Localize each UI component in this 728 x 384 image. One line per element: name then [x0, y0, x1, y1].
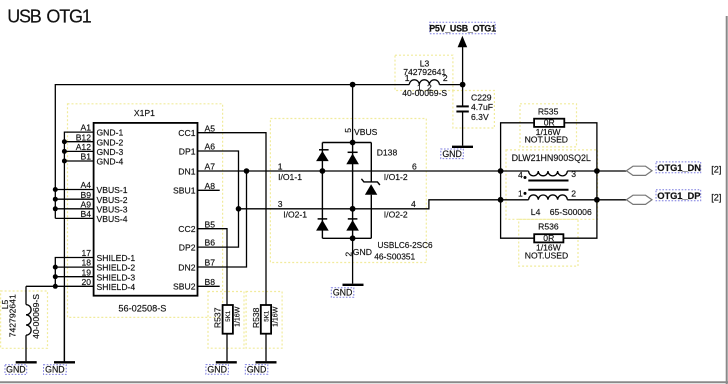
- X1P1 refdes: [134, 108, 155, 118]
- svg-text:SHILED-1: SHILED-1: [97, 253, 136, 263]
- GND label shield: [44, 365, 67, 375]
- D138 part numbers: [374, 241, 433, 261]
- P5V_USB_OTG1 label: [429, 22, 496, 33]
- svg-text:A9: A9: [80, 199, 91, 209]
- OTG1_DP sheet ref [2]: [711, 193, 721, 203]
- wire VBUS drop to D138 pin5: [352, 85, 354, 143]
- yellow dashed property box R538: [246, 292, 282, 349]
- svg-text:B9: B9: [80, 190, 91, 200]
- OTG1_DN net label: [656, 162, 701, 173]
- svg-text:L4: L4: [531, 207, 541, 217]
- yellow dashed property box X1P1: [68, 104, 223, 318]
- svg-text:SBU1: SBU1: [173, 186, 196, 196]
- svg-text:GND-1: GND-1: [97, 128, 124, 138]
- resistor R536 body: [534, 234, 563, 242]
- X1P1 left pin names: [97, 128, 136, 292]
- D138 pin 2 GND label: [343, 247, 372, 257]
- svg-text:20: 20: [81, 277, 91, 287]
- yellow dashed property box R537: [208, 292, 244, 349]
- power net P5V_USB_OTG1 arrow: [458, 36, 468, 85]
- svg-text:DP1: DP1: [179, 146, 196, 156]
- svg-text:2: 2: [443, 73, 448, 83]
- svg-text:A5: A5: [205, 123, 216, 133]
- transformer L4 winding top: [529, 171, 568, 176]
- svg-text:742792641: 742792641: [7, 294, 17, 337]
- D138 junction dots: [320, 140, 356, 242]
- svg-text:1: 1: [278, 161, 283, 171]
- svg-text:DN1: DN1: [178, 166, 195, 176]
- ground symbol D138: [343, 284, 364, 286]
- svg-text:B12: B12: [76, 132, 92, 142]
- transformer DLW21HN900SQ2L name: [512, 153, 591, 163]
- svg-text:A8: A8: [205, 181, 216, 191]
- svg-text:742792641: 742792641: [403, 67, 446, 77]
- svg-text:5K1: 5K1: [263, 310, 270, 322]
- svg-text:A6: A6: [205, 142, 216, 152]
- C229 labels: [471, 93, 493, 123]
- R538 labels: [251, 306, 280, 328]
- svg-text:[2]: [2]: [711, 165, 721, 175]
- svg-text:DN2: DN2: [178, 262, 195, 272]
- svg-text:SHIELD-4: SHIELD-4: [97, 282, 136, 292]
- svg-text:R536: R536: [538, 222, 559, 232]
- svg-text:B4: B4: [80, 209, 91, 219]
- svg-text:I/O1-1: I/O1-1: [278, 172, 302, 182]
- svg-text:1: 1: [405, 73, 410, 83]
- capacitor C229: [456, 85, 468, 146]
- yellow dashed property box L5: [1, 291, 48, 348]
- svg-text:B1: B1: [80, 152, 91, 162]
- svg-text:GND: GND: [207, 364, 227, 374]
- junction GND bus dots: [62, 139, 67, 163]
- svg-text:GND: GND: [45, 365, 65, 375]
- ground symbol R537: [216, 361, 237, 363]
- svg-text:1/16W: 1/16W: [234, 306, 241, 327]
- svg-text:I/O1-2: I/O1-2: [384, 172, 408, 182]
- svg-text:USBLC6-2SC6: USBLC6-2SC6: [378, 241, 434, 250]
- GND label D138: [331, 288, 354, 298]
- svg-text:6: 6: [412, 161, 417, 171]
- junction DN tie: [244, 168, 250, 174]
- wire VBUS pins bus: [55, 190, 93, 219]
- svg-text:0R: 0R: [543, 233, 554, 243]
- svg-text:B7: B7: [205, 258, 216, 268]
- wire net DP I/O2 row: [239, 200, 627, 209]
- svg-text:[2]: [2]: [711, 193, 721, 203]
- svg-text:A1: A1: [80, 123, 91, 133]
- svg-text:56-02508-S: 56-02508-S: [118, 303, 166, 313]
- wire VBUS top rail: [55, 85, 462, 219]
- L5 value labels: [0, 294, 41, 339]
- wire D138 to ground: [352, 238, 354, 283]
- svg-text:17: 17: [81, 248, 91, 258]
- transformer L4 winding bottom: [529, 195, 568, 200]
- L4 part labels: [531, 207, 592, 217]
- svg-text:SBU2: SBU2: [173, 282, 196, 292]
- svg-text:2: 2: [343, 252, 353, 257]
- svg-text:B6: B6: [205, 238, 216, 248]
- wire DP1 A6 to DP2 B6: [198, 151, 239, 247]
- L4 junction dots: [498, 168, 600, 203]
- svg-text:GND: GND: [247, 364, 267, 374]
- D138 pin 1 label: [278, 161, 302, 182]
- wire GND pins bus: [64, 132, 93, 362]
- diode array D138 outline: [322, 143, 371, 239]
- svg-text:2: 2: [571, 189, 576, 199]
- resistor R537 body: [223, 305, 233, 334]
- svg-text:NOT.USED: NOT.USED: [525, 250, 568, 260]
- pin stub SBU1 A8: [198, 189, 220, 191]
- transformer polarity dots: [524, 176, 527, 195]
- svg-text:B5: B5: [205, 219, 216, 229]
- svg-text:P5V_USB_OTG1: P5V_USB_OTG1: [429, 23, 496, 33]
- GND label L5: [5, 365, 27, 375]
- GND label R537: [206, 364, 229, 374]
- resistor R535 body: [534, 119, 564, 127]
- junction DP tie to I/O2: [236, 206, 242, 212]
- D138 pin 6 label: [384, 161, 417, 182]
- junction SHIELD bus dots: [53, 265, 58, 289]
- inductor L5: [26, 286, 31, 361]
- R535 labels: [525, 107, 568, 145]
- svg-text:OTG1_DP: OTG1_DP: [657, 190, 700, 201]
- GND label C229: [441, 149, 464, 159]
- svg-text:VBUS-3: VBUS-3: [97, 204, 128, 214]
- ground symbol shield: [54, 361, 75, 363]
- D138 diode left bottom: [316, 219, 329, 231]
- svg-text:A4: A4: [80, 180, 91, 190]
- svg-text:DP2: DP2: [179, 242, 196, 252]
- wire SHIELD pins bus: [26, 258, 94, 287]
- R536 labels: [525, 222, 568, 261]
- svg-text:GND: GND: [6, 365, 26, 375]
- svg-text:GND: GND: [353, 247, 372, 257]
- svg-text:3: 3: [278, 199, 283, 209]
- junction L3 out: [460, 82, 466, 88]
- wire CC1 A5 to R538: [198, 133, 267, 305]
- R535 wires: [501, 123, 597, 238]
- R537 labels: [212, 306, 241, 328]
- svg-text:GND: GND: [333, 288, 353, 298]
- yellow dashed property box L3: [395, 55, 453, 90]
- svg-text:GND-3: GND-3: [97, 147, 124, 157]
- off-page connector OTG1_DN: [626, 166, 652, 175]
- svg-text:18: 18: [81, 258, 91, 268]
- yellow dashed property box R535: [520, 104, 577, 147]
- D138 pin 4 label: [384, 199, 416, 220]
- svg-text:GND-2: GND-2: [97, 137, 124, 147]
- svg-text:6.3V: 6.3V: [471, 112, 489, 122]
- yellow dashed property box C229: [453, 91, 495, 129]
- wire DN1 A7 to DN2 B7: [198, 171, 247, 267]
- junction VBUS top: [350, 82, 356, 88]
- X1P1 right pin numbers: [205, 123, 216, 287]
- ground symbol C229: [452, 146, 473, 148]
- svg-text:CC2: CC2: [178, 224, 195, 234]
- svg-text:DLW21HN900SQ2L: DLW21HN900SQ2L: [512, 153, 591, 163]
- OTG1_DN sheet ref [2]: [711, 165, 721, 175]
- svg-text:R538: R538: [251, 307, 261, 328]
- D138 zener: [361, 179, 380, 195]
- title USB OTG1: [7, 7, 92, 27]
- svg-text:VBUS-4: VBUS-4: [97, 214, 128, 224]
- svg-text:CC1: CC1: [178, 128, 195, 138]
- wire net DN1 I/O1 row: [198, 170, 627, 172]
- transformer core bars: [528, 181, 568, 190]
- D138 pin 3 label: [278, 199, 308, 220]
- svg-text:1: 1: [518, 189, 523, 199]
- svg-text:0R: 0R: [544, 118, 555, 128]
- D138 diode center top: [346, 152, 359, 164]
- svg-text:A12: A12: [76, 142, 92, 152]
- svg-text:GND: GND: [442, 149, 462, 159]
- svg-text:B8: B8: [205, 277, 216, 287]
- svg-text:3: 3: [571, 169, 576, 179]
- junction VBUS bus dots: [53, 187, 58, 211]
- D138 refdes: [377, 147, 398, 157]
- X1P1 right pin names: [173, 128, 196, 292]
- yellow dashed property box L4 DLW21: [506, 150, 598, 219]
- ground symbol L5: [16, 361, 37, 363]
- wire CC2 B5 to R537: [198, 229, 228, 305]
- D138 pin 5 VBUS label: [343, 127, 378, 137]
- svg-text:19: 19: [81, 267, 91, 277]
- X1P1 part number 56-02508-S: [118, 303, 166, 313]
- GND label R538: [245, 364, 267, 374]
- svg-text:A7: A7: [205, 162, 216, 172]
- wire shield bus to ground: [63, 286, 65, 361]
- L3 labels: [402, 59, 448, 99]
- ground symbol R538: [256, 361, 277, 363]
- svg-text:VBUS-2: VBUS-2: [97, 195, 128, 205]
- connector X1P1 body: [94, 123, 198, 296]
- svg-text:VBUS: VBUS: [354, 127, 378, 137]
- wire R538 to ground: [265, 334, 267, 362]
- off-page connector OTG1_DP: [626, 195, 652, 204]
- X1P1 left pin numbers: [76, 123, 92, 287]
- svg-text:46-S00351: 46-S00351: [374, 251, 415, 261]
- wire R537 to ground: [226, 334, 228, 362]
- svg-text:4: 4: [518, 170, 523, 180]
- svg-text:X1P1: X1P1: [134, 108, 155, 118]
- D138 diode center bottom: [346, 219, 359, 231]
- svg-text:OTG1_DN: OTG1_DN: [657, 162, 701, 173]
- svg-text:4.7uF: 4.7uF: [471, 102, 493, 112]
- transformer pin labels: [518, 169, 576, 198]
- svg-text:1/16W: 1/16W: [273, 306, 280, 327]
- resistor R538 body: [261, 305, 271, 334]
- svg-text:SHIELD-2: SHIELD-2: [97, 263, 136, 273]
- svg-text:NOT.USED: NOT.USED: [525, 134, 568, 144]
- svg-text:40-00069-S: 40-00069-S: [31, 294, 41, 339]
- svg-text:65-S00006: 65-S00006: [550, 207, 592, 217]
- pin stub SBU2 B8: [198, 285, 220, 287]
- svg-text:VBUS-1: VBUS-1: [97, 185, 128, 195]
- svg-text:5: 5: [343, 128, 353, 133]
- svg-text:R537: R537: [212, 307, 222, 328]
- inductor L3: [409, 80, 439, 85]
- svg-text:SHIELD-3: SHIELD-3: [97, 272, 136, 282]
- yellow dashed property box R536: [519, 219, 578, 266]
- svg-text:D138: D138: [377, 147, 398, 157]
- svg-text:GND-4: GND-4: [97, 157, 124, 167]
- svg-text:40-00069-S: 40-00069-S: [402, 88, 447, 98]
- svg-text:I/O2-2: I/O2-2: [384, 210, 408, 220]
- svg-text:R535: R535: [538, 107, 559, 117]
- svg-text:4: 4: [411, 199, 416, 209]
- svg-text:5K1: 5K1: [225, 310, 232, 322]
- svg-text:USB OTG1: USB OTG1: [7, 7, 92, 27]
- svg-text:I/O2-1: I/O2-1: [283, 210, 307, 220]
- D138 diode left top: [316, 150, 329, 161]
- yellow dashed property box D138: [270, 119, 426, 263]
- OTG1_DP net label: [656, 190, 701, 201]
